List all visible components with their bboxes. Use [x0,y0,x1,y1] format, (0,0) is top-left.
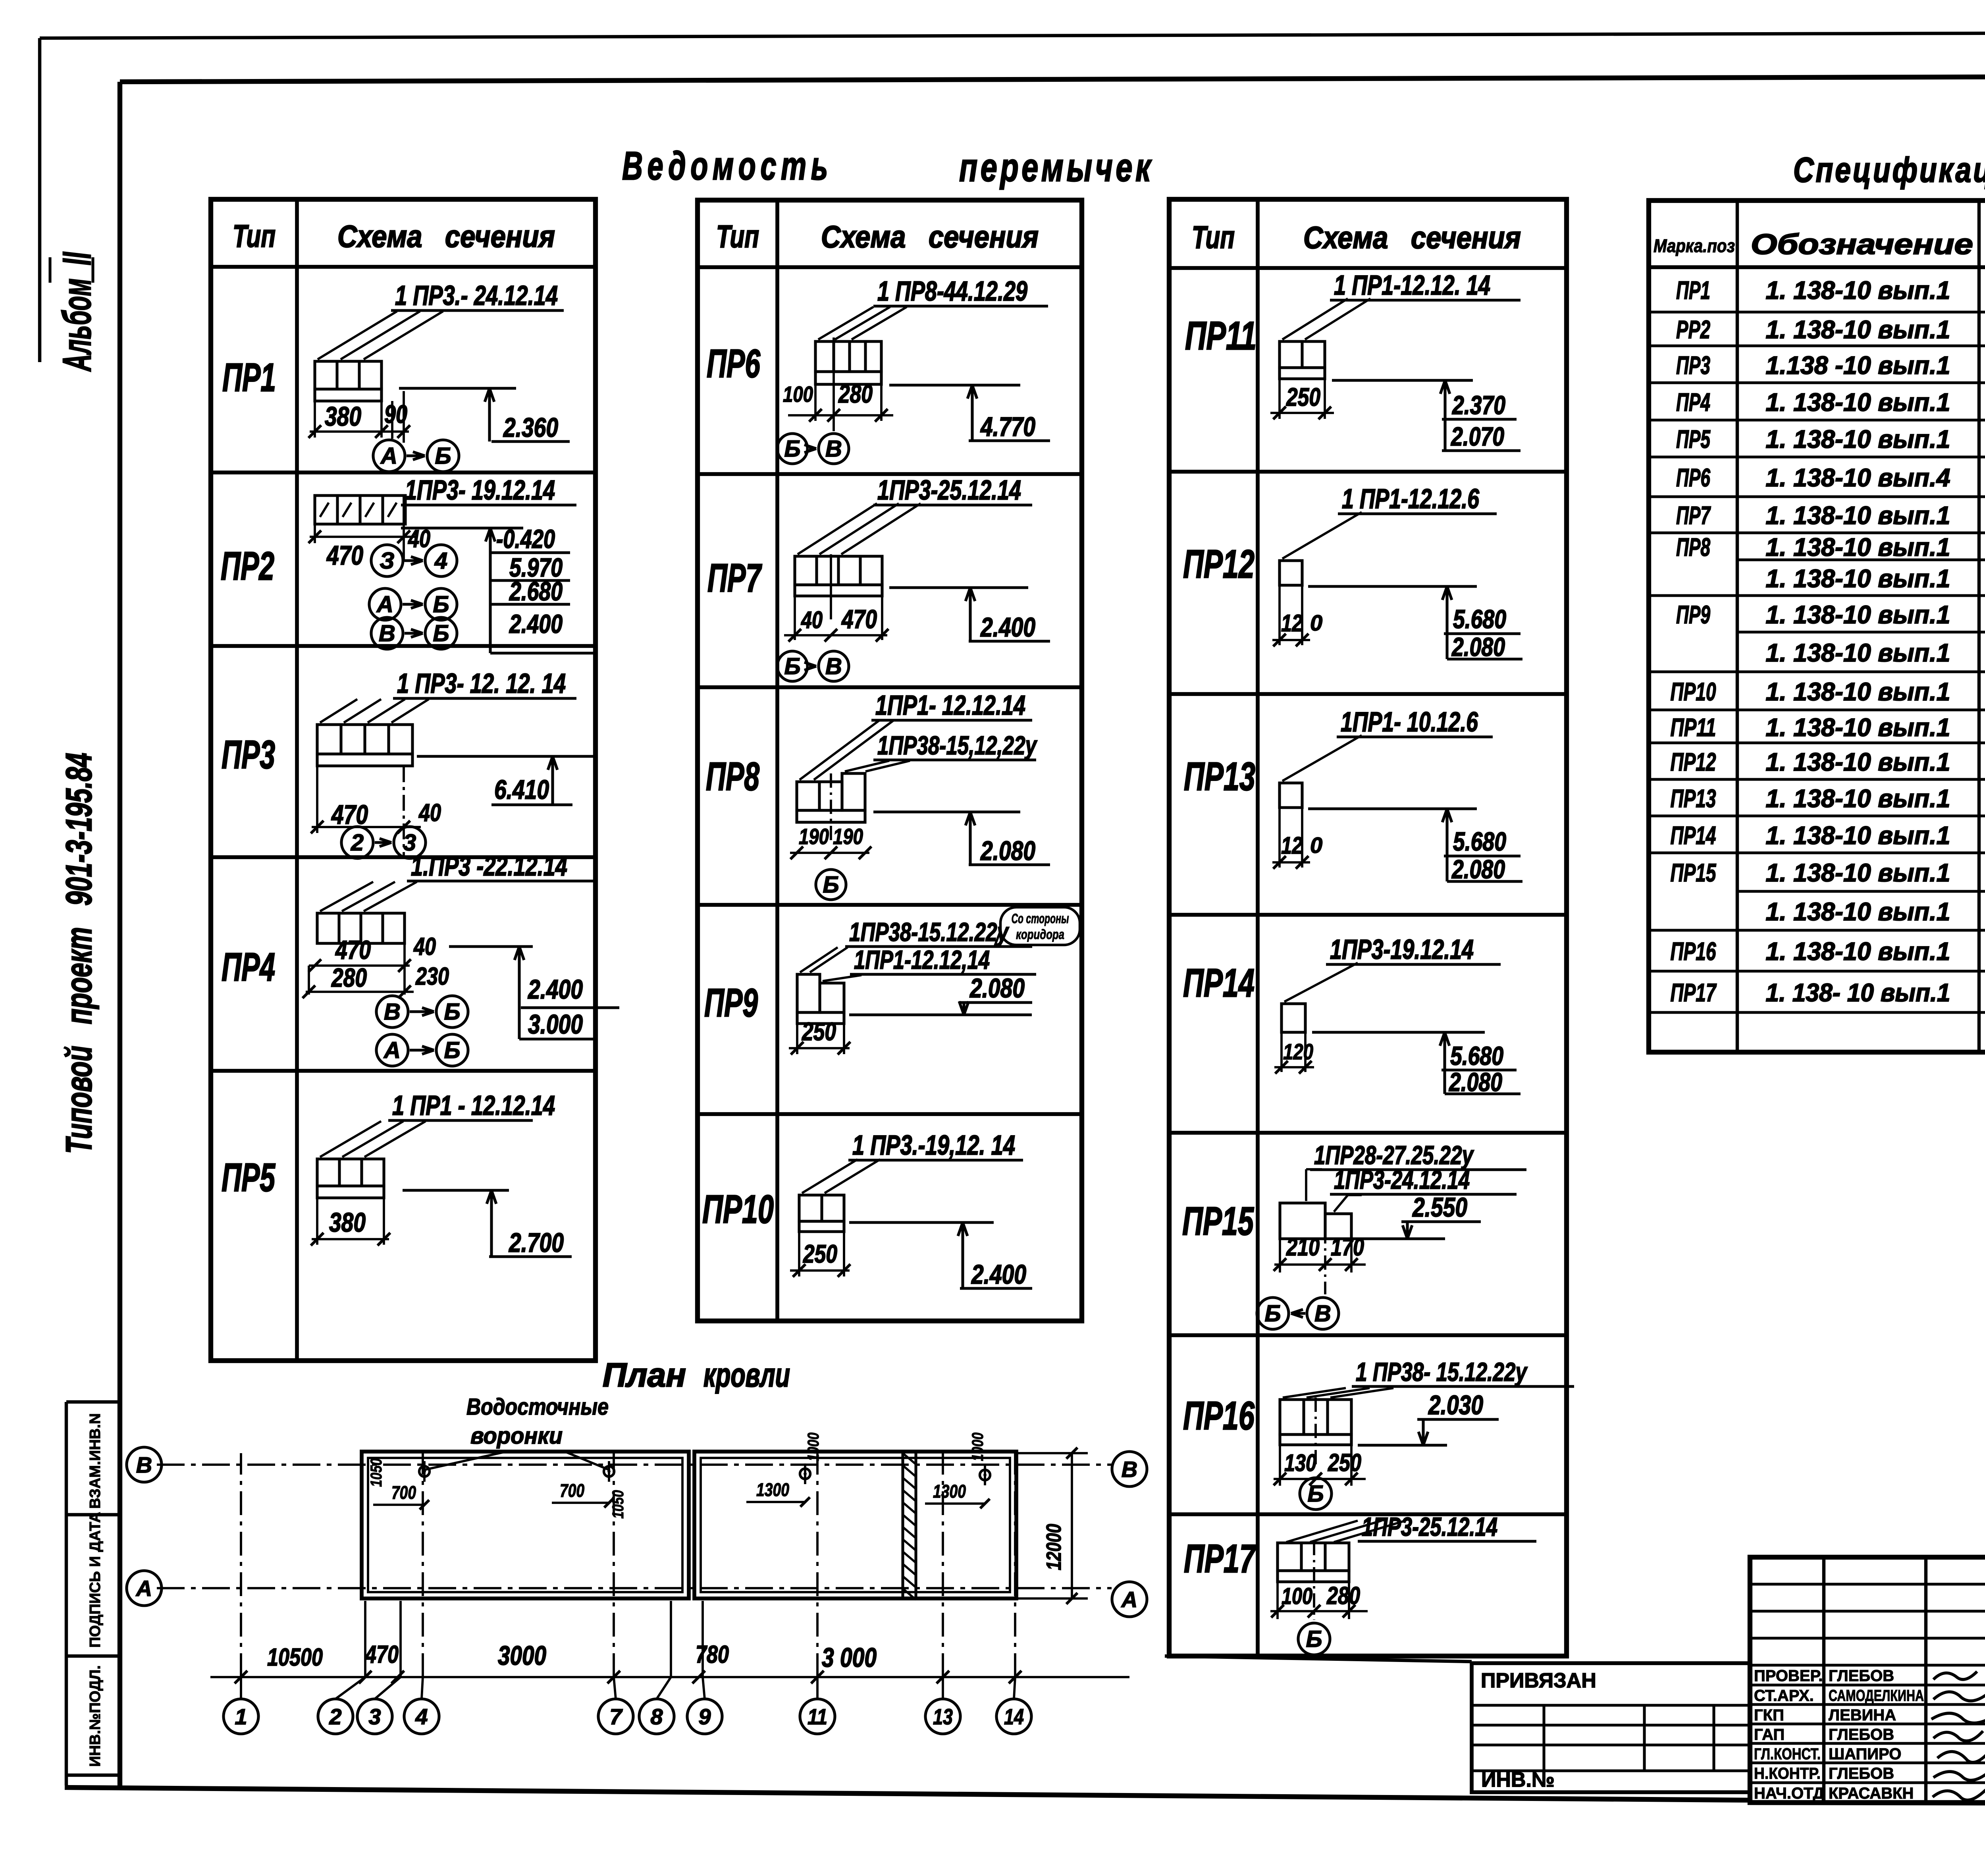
svg-text:8: 8 [650,1704,663,1729]
svg-text:1ПР1- 12.12.14: 1ПР1- 12.12.14 [875,690,1025,721]
svg-text:280: 280 [838,380,873,408]
svg-text:9: 9 [698,1704,711,1729]
svg-text:2.400: 2.400 [980,612,1035,642]
svg-text:1000: 1000 [805,1433,822,1461]
svg-text:А: А [135,1576,152,1601]
svg-text:Н.КОНТР.: Н.КОНТР. [1754,1765,1821,1782]
svg-text:470: 470 [364,1641,399,1668]
svg-text:2.080: 2.080 [980,836,1035,866]
svg-text:470: 470 [326,540,363,571]
svg-text:ПР4: ПР4 [1676,388,1710,416]
svg-text:2: 2 [329,1704,341,1729]
svg-text:1 ПР3.-19,12. 14: 1 ПР3.-19,12. 14 [852,1130,1015,1161]
svg-text:ВЗАМ.ИНВ.N: ВЗАМ.ИНВ.N [87,1413,104,1509]
svg-text:ПР10: ПР10 [1671,677,1716,706]
svg-text:В: В [1122,1457,1137,1482]
svg-text:перемычек: перемычек [959,145,1154,190]
svg-text:ПР14: ПР14 [1671,821,1716,850]
svg-text:1ПР3- 19.12.14: 1ПР3- 19.12.14 [405,474,555,505]
svg-text:Тип: Тип [1192,220,1235,255]
svg-text:4: 4 [434,548,447,574]
svg-text:250: 250 [803,1240,837,1268]
svg-text:1000: 1000 [969,1433,987,1461]
svg-text:1 ПР1-12.12. 14: 1 ПР1-12.12. 14 [1334,270,1490,301]
svg-text:230: 230 [415,963,449,990]
svg-text:2.370: 2.370 [1451,390,1505,420]
svg-text:В: В [825,654,842,679]
svg-text:-0.420: -0.420 [496,524,555,553]
svg-text:Схема сечения: Схема сечения [337,219,555,254]
svg-text:ПР16: ПР16 [1671,937,1716,966]
svg-text:Спецификация: Спецификация [1793,150,1985,189]
svg-text:ГЛЕБОВ: ГЛЕБОВ [1829,1726,1894,1743]
svg-text:1300: 1300 [933,1481,966,1502]
svg-text:12: 12 [1281,610,1303,636]
svg-text:ПР6: ПР6 [707,341,761,386]
svg-text:40: 40 [418,799,441,827]
svg-text:250: 250 [802,1017,836,1046]
svg-text:2: 2 [351,830,364,856]
svg-text:ПР6: ПР6 [1676,463,1710,492]
svg-text:ПР7: ПР7 [1676,501,1711,530]
svg-text:ПР9: ПР9 [704,981,758,1025]
svg-text:ШАПИРО: ШАПИРО [1829,1745,1901,1763]
svg-text:воронки: воронки [470,1423,563,1449]
svg-text:З: З [380,548,394,574]
svg-text:А: А [383,1037,401,1063]
svg-text:Обозначение: Обозначение [1751,229,1973,260]
svg-text:10500: 10500 [267,1644,323,1671]
svg-text:5.680: 5.680 [1453,604,1506,634]
svg-text:0: 0 [1310,610,1322,635]
svg-text:ПР1: ПР1 [222,355,276,400]
svg-text:План: План [603,1356,686,1394]
svg-text:100: 100 [783,382,813,407]
svg-text:470: 470 [335,935,371,964]
svg-text:2.400: 2.400 [509,609,563,638]
svg-text:А: А [376,592,393,617]
svg-text:90: 90 [384,400,407,428]
svg-text:ПРИВЯЗАН: ПРИВЯЗАН [1481,1669,1596,1692]
svg-text:Б: Б [784,654,800,679]
svg-text:1 ПР1-12.12.6: 1 ПР1-12.12.6 [1342,483,1480,514]
svg-text:Тип: Тип [233,218,276,254]
svg-text:ПР10: ПР10 [702,1187,774,1232]
svg-text:ЛЕВИНА: ЛЕВИНА [1829,1706,1896,1724]
svg-text:ПР13: ПР13 [1184,754,1255,799]
svg-text:Схема сечения: Схема сечения [1303,220,1521,255]
svg-text:13: 13 [933,1704,953,1729]
svg-text:КРАСАВКН: КРАСАВКН [1829,1785,1914,1802]
svg-text:190: 190 [833,824,863,849]
svg-text:7: 7 [609,1704,623,1729]
svg-text:1. 138-10 вып.1: 1. 138-10 вып.1 [1766,315,1950,344]
svg-text:1. 138-10 вып.1: 1. 138-10 вып.1 [1766,821,1950,850]
svg-text:470: 470 [841,604,877,634]
svg-text:1. 138-10 вып.1: 1. 138-10 вып.1 [1766,858,1950,887]
svg-text:2.550: 2.550 [1412,1192,1467,1222]
svg-text:Водосточные: Водосточные [466,1394,609,1420]
svg-text:Тип: Тип [716,219,759,254]
svg-text:Марка.поз: Марка.поз [1654,235,1735,256]
svg-text:1. 138-10 вып.1: 1. 138-10 вып.1 [1766,276,1950,305]
svg-text:ПР12: ПР12 [1671,748,1716,776]
svg-text:380: 380 [329,1207,366,1238]
svg-text:Б: Б [1306,1626,1322,1652]
svg-text:2.400: 2.400 [971,1259,1026,1290]
svg-text:1ПР3-25.12.14: 1ПР3-25.12.14 [877,474,1021,505]
svg-text:1ПР3-24.12.14: 1ПР3-24.12.14 [1334,1165,1470,1194]
svg-text:1 ПР8-44.12.29: 1 ПР8-44.12.29 [877,276,1027,307]
svg-text:1. 138-10 вып.1: 1. 138-10 вып.1 [1766,501,1950,530]
svg-text:1. 138-10 вып.1: 1. 138-10 вып.1 [1766,388,1950,416]
svg-text:Б: Б [444,999,460,1025]
svg-text:ПР5: ПР5 [1676,425,1711,453]
svg-text:ПР9: ПР9 [1676,600,1710,629]
svg-text:1ПР1- 10.12.6: 1ПР1- 10.12.6 [1341,706,1478,737]
svg-text:0: 0 [1310,833,1322,858]
svg-text:2.080: 2.080 [969,973,1025,1003]
svg-text:1. 138-10 вып.1: 1. 138-10 вып.1 [1766,784,1950,813]
svg-text:2.360: 2.360 [503,413,558,443]
svg-text:1.138 -10 вып.1: 1.138 -10 вып.1 [1766,351,1950,380]
svg-text:В: В [1314,1301,1331,1327]
svg-text:2.680: 2.680 [509,576,563,606]
svg-text:ПР15: ПР15 [1671,858,1717,887]
svg-text:ПР4: ПР4 [222,945,275,989]
svg-text:1ПР3-25.12.14: 1ПР3-25.12.14 [1362,1512,1497,1541]
svg-text:ПР1: ПР1 [1676,276,1710,305]
svg-text:ГЛЕБОВ: ГЛЕБОВ [1829,1765,1894,1782]
svg-text:1ПР38-15.12.22у: 1ПР38-15.12.22у [849,917,1010,947]
svg-text:Б: Б [1264,1301,1281,1327]
svg-text:1: 1 [235,1704,247,1729]
svg-text:ПР7: ПР7 [707,556,762,600]
svg-text:1. 138-10 вып.1: 1. 138-10 вып.1 [1766,937,1950,966]
svg-text:2.080: 2.080 [1448,1067,1502,1097]
svg-text:В: В [379,621,395,646]
svg-text:3 000: 3 000 [822,1643,877,1673]
svg-text:ПР3: ПР3 [1676,351,1710,380]
svg-text:ГКП: ГКП [1754,1706,1784,1724]
svg-text:РР2: РР2 [1676,315,1710,344]
svg-text:А: А [380,443,397,469]
svg-text:12000: 12000 [1043,1524,1066,1570]
svg-text:Б: Б [433,621,449,646]
svg-text:ГЛ.КОНСТ.: ГЛ.КОНСТ. [1754,1745,1821,1763]
svg-text:Б: Б [433,592,449,617]
svg-text:ПР16: ПР16 [1183,1394,1255,1438]
svg-text:ПР3: ПР3 [222,733,275,777]
svg-text:ПР5: ПР5 [222,1155,276,1200]
svg-text:14: 14 [1004,1704,1024,1729]
svg-text:120: 120 [1283,1039,1313,1064]
svg-text:1. 138-10 вып.4: 1. 138-10 вып.4 [1766,463,1950,492]
svg-text:4.770: 4.770 [980,412,1035,442]
svg-text:700: 700 [391,1482,416,1503]
svg-text:5.680: 5.680 [1450,1041,1503,1070]
svg-text:11: 11 [807,1704,827,1729]
svg-text:Б: Б [444,1037,460,1063]
svg-text:ПР14: ПР14 [1183,961,1255,1005]
svg-text:1.ПР3 -22.12.14: 1.ПР3 -22.12.14 [411,850,567,881]
svg-text:ПР15: ПР15 [1182,1199,1254,1244]
svg-text:1 ПР3- 12. 12. 14: 1 ПР3- 12. 12. 14 [397,668,566,699]
svg-text:700: 700 [560,1480,584,1501]
svg-text:ПР12: ПР12 [1183,542,1255,586]
svg-text:Ведомость: Ведомость [622,144,833,188]
svg-text:В: В [136,1452,152,1477]
svg-text:5.680: 5.680 [1453,827,1506,856]
svg-text:СТ.АРХ.: СТ.АРХ. [1754,1687,1814,1704]
svg-text:ПР8: ПР8 [1676,533,1710,561]
svg-text:1. 138-10 вып.1: 1. 138-10 вып.1 [1766,748,1950,776]
svg-text:ГЛЕБОВ: ГЛЕБОВ [1829,1667,1894,1685]
svg-text:3: 3 [368,1704,381,1729]
svg-text:1. 138-10 вып.1: 1. 138-10 вып.1 [1766,425,1950,453]
svg-text:Схема сечения: Схема сечения [821,219,1039,254]
svg-text:ПР2: ПР2 [221,544,274,588]
svg-text:1. 138-10 вып.1: 1. 138-10 вып.1 [1766,564,1950,593]
svg-text:ПР17: ПР17 [1184,1537,1257,1581]
svg-text:ПР17: ПР17 [1671,978,1717,1007]
svg-text:Б: Б [1307,1481,1324,1507]
svg-text:ПР13: ПР13 [1671,784,1716,813]
svg-text:ПР11: ПР11 [1185,314,1257,358]
svg-text:ПРОВЕР.: ПРОВЕР. [1754,1667,1823,1685]
svg-text:ИНВ.№ПОДЛ.: ИНВ.№ПОДЛ. [87,1665,104,1767]
svg-text:210: 210 [1286,1234,1320,1261]
svg-text:Б: Б [823,872,839,898]
svg-text:3000: 3000 [498,1641,546,1671]
svg-text:САМОДЕЛКИНА: САМОДЕЛКИНА [1829,1687,1924,1704]
svg-text:кровли: кровли [703,1356,790,1394]
svg-text:А: А [1121,1587,1137,1612]
svg-text:6.410: 6.410 [494,775,549,805]
svg-text:2.400: 2.400 [527,974,583,1005]
svg-text:12: 12 [1281,832,1303,859]
svg-text:1. 138-10 вып.1: 1. 138-10 вып.1 [1766,600,1950,629]
svg-text:170: 170 [1331,1234,1364,1261]
svg-text:1 ПР3.- 24.12.14: 1 ПР3.- 24.12.14 [395,280,558,311]
svg-text:Типовой проект 901-3-195.8: Типовой проект 901-3-195.84 [59,753,99,1154]
svg-text:470: 470 [331,800,368,830]
svg-text:Б: Б [784,436,800,462]
svg-text:2.700: 2.700 [508,1228,564,1258]
svg-text:1050: 1050 [609,1490,627,1519]
svg-text:1. 138-10 вып.1: 1. 138-10 вып.1 [1766,533,1950,561]
svg-text:40: 40 [801,607,823,633]
svg-text:1ПР38-15,12,22у: 1ПР38-15,12,22у [877,731,1038,760]
svg-text:40: 40 [413,933,436,960]
svg-text:1. 138-10 вып.1: 1. 138-10 вып.1 [1766,677,1950,706]
svg-text:Б: Б [435,443,451,469]
svg-text:1300: 1300 [756,1479,789,1500]
svg-text:250: 250 [1286,383,1320,411]
svg-text:1. 138-10 вып.1: 1. 138-10 вып.1 [1766,897,1950,926]
svg-text:380: 380 [325,401,361,432]
svg-text:1 ПР1 - 12.12.14: 1 ПР1 - 12.12.14 [392,1090,555,1121]
svg-text:3.000: 3.000 [528,1009,583,1039]
svg-text:В: В [384,999,401,1025]
svg-text:1050: 1050 [368,1458,385,1487]
svg-text:100: 100 [1282,1583,1312,1609]
svg-text:Со стороны: Со стороны [1012,911,1069,926]
svg-text:ПОДПИСЬ И ДАТА: ПОДПИСЬ И ДАТА [87,1512,104,1648]
svg-text:2.080: 2.080 [1451,632,1505,661]
svg-text:2.080: 2.080 [1451,854,1505,884]
svg-text:130: 130 [1284,1450,1316,1476]
svg-text:2.070: 2.070 [1450,422,1504,451]
svg-text:1. 138- 10 вып.1: 1. 138- 10 вып.1 [1766,978,1950,1007]
svg-text:280: 280 [331,963,367,992]
svg-text:1. 138-10 вып.1: 1. 138-10 вып.1 [1766,713,1950,742]
svg-text:1ПР1-12.12,14: 1ПР1-12.12,14 [854,945,990,974]
svg-text:1. 138-10 вып.1: 1. 138-10 вып.1 [1766,638,1950,667]
svg-text:ПР8: ПР8 [706,754,759,799]
svg-text:НАЧ.ОТД: НАЧ.ОТД [1754,1785,1824,1802]
svg-text:1ПР3-19.12.14: 1ПР3-19.12.14 [1330,934,1474,965]
svg-text:1 ПР38- 15.12.22у: 1 ПР38- 15.12.22у [1356,1357,1528,1386]
svg-text:коридора: коридора [1016,927,1064,942]
svg-text:780: 780 [696,1641,729,1668]
svg-text:ГАП: ГАП [1754,1726,1785,1743]
svg-text:В: В [825,436,842,462]
svg-text:ПР11: ПР11 [1671,713,1716,742]
svg-text:2.030: 2.030 [1428,1390,1483,1420]
svg-text:ИНВ.№: ИНВ.№ [1481,1768,1555,1791]
svg-text:190: 190 [799,824,829,849]
svg-text:4: 4 [415,1704,428,1729]
